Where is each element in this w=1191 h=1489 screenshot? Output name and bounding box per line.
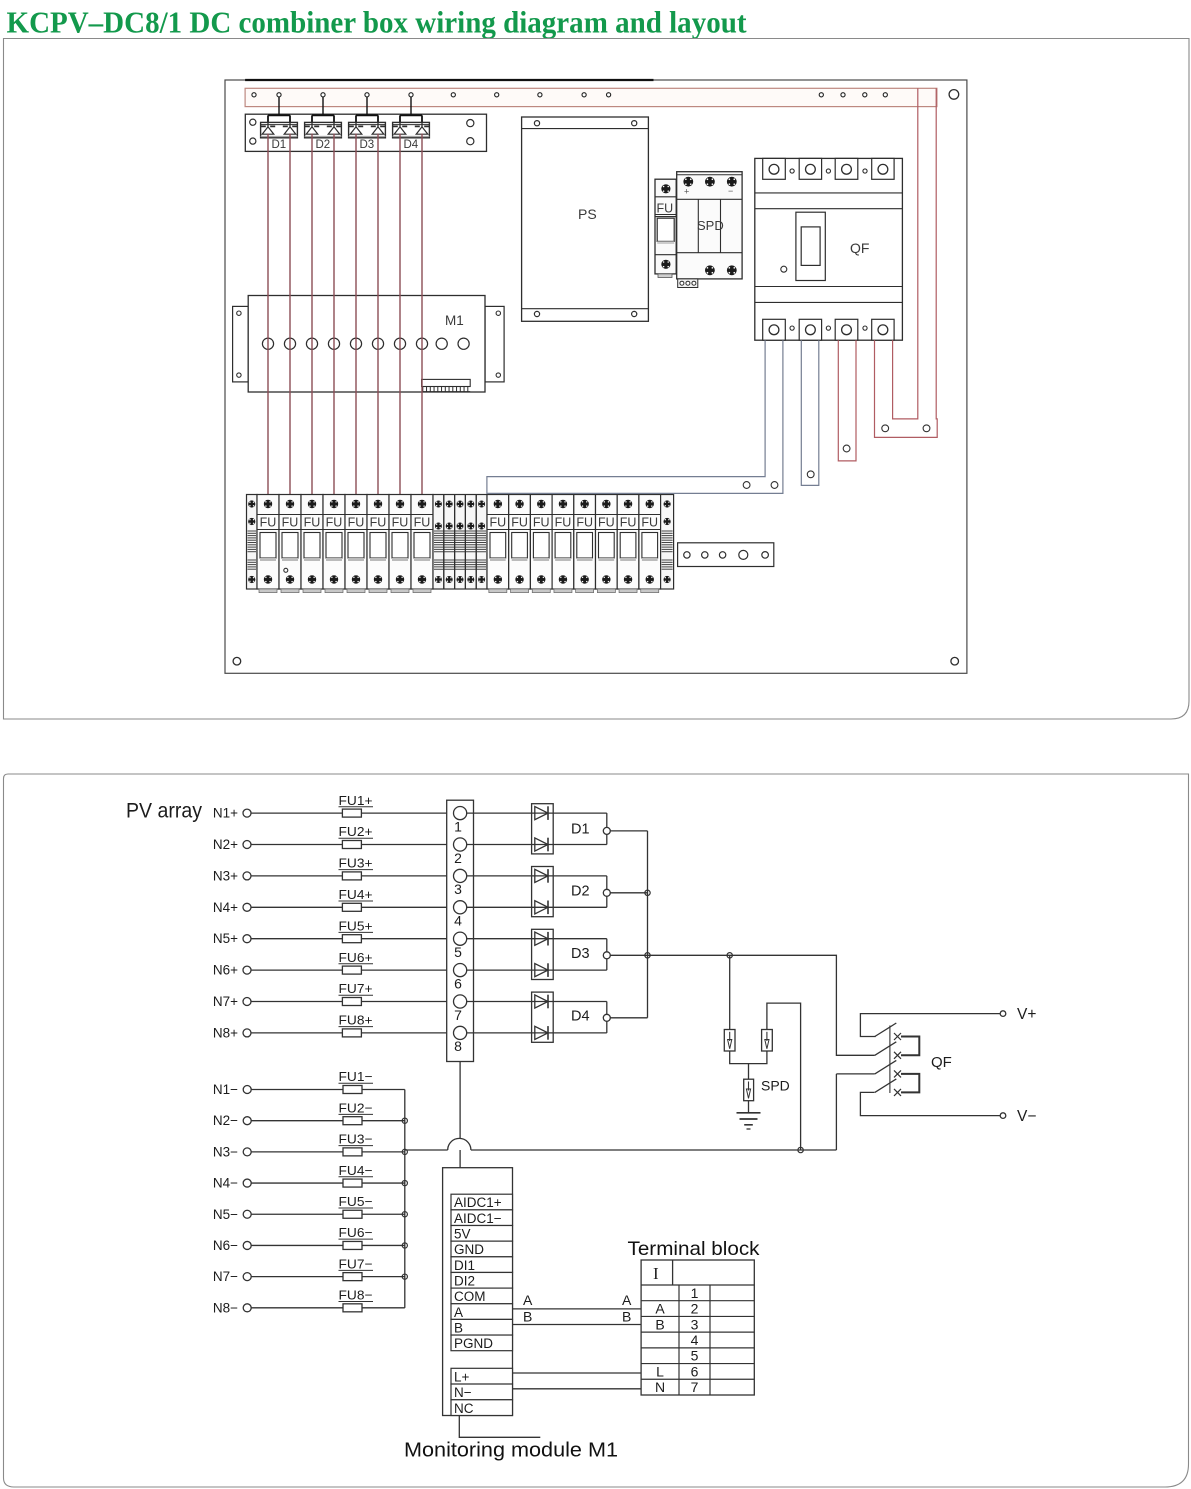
svg-text:V+: V+	[1017, 1006, 1036, 1023]
svg-text:B: B	[655, 1316, 664, 1332]
svg-text:−: −	[728, 186, 733, 196]
diode board holes	[250, 119, 474, 145]
svg-text:FU6+: FU6+	[339, 950, 373, 965]
svg-text:B: B	[454, 1320, 463, 1335]
svg-text:N8−: N8−	[213, 1300, 238, 1315]
fuse FU5-	[339, 1194, 374, 1218]
svg-text:FU5+: FU5+	[339, 918, 373, 933]
svg-text:N2+: N2+	[213, 837, 238, 852]
fuse FU8-	[339, 1288, 374, 1312]
fuse FU6-	[339, 1225, 374, 1249]
svg-text:Terminal block: Terminal block	[628, 1238, 760, 1260]
svg-text:N8+: N8+	[213, 1025, 238, 1040]
fuse FU3+	[339, 856, 374, 880]
svg-text:N4−: N4−	[213, 1176, 238, 1191]
svg-text:D4: D4	[404, 139, 419, 151]
svg-text:N5−: N5−	[213, 1207, 238, 1222]
blue stub QF terminal 2	[801, 340, 819, 485]
output V-	[1000, 1108, 1036, 1125]
svg-text:3: 3	[691, 1316, 699, 1332]
svg-text:FU: FU	[511, 516, 528, 530]
circuit breaker QF (schematic)	[860, 1014, 1000, 1116]
svg-text:6: 6	[454, 975, 462, 991]
svg-text:N1+: N1+	[213, 806, 238, 821]
diode pair D3	[532, 929, 648, 979]
svg-text:AIDC1−: AIDC1−	[454, 1211, 502, 1226]
fuse FU4+	[339, 887, 374, 911]
svg-text:7: 7	[454, 1007, 462, 1023]
wire L+	[513, 1372, 642, 1374]
svg-text:PV array: PV array	[126, 799, 202, 823]
N- bus junctions	[402, 1118, 407, 1279]
surge protector SPD	[677, 172, 742, 288]
svg-text:FU1+: FU1+	[339, 793, 373, 808]
svg-text:FU: FU	[576, 516, 593, 530]
svg-text:2: 2	[691, 1301, 699, 1317]
svg-text:FU: FU	[555, 516, 572, 530]
wire B	[513, 1309, 642, 1325]
input terminal N4-	[213, 1176, 405, 1191]
SPD arrester 2	[762, 1003, 801, 1150]
fuse FU3-	[339, 1132, 374, 1156]
svg-text:PS: PS	[578, 206, 597, 222]
svg-text:AIDC1+: AIDC1+	[454, 1195, 502, 1210]
middle terminal strips	[433, 495, 487, 590]
N- bus vertical	[404, 1090, 406, 1308]
ground symbol	[737, 1101, 761, 1129]
svg-text:6: 6	[691, 1363, 699, 1379]
svg-text:5V: 5V	[454, 1227, 471, 1242]
input terminal N8+	[213, 1025, 454, 1040]
svg-text:FU: FU	[260, 516, 277, 530]
svg-text:D1: D1	[571, 822, 590, 838]
svg-text:N6−: N6−	[213, 1238, 238, 1253]
svg-text:FU: FU	[490, 516, 507, 530]
svg-text:A: A	[523, 1292, 533, 1308]
svg-text:5: 5	[691, 1348, 699, 1364]
enclosure corner holes	[949, 90, 959, 100]
svg-text:FU2−: FU2−	[339, 1100, 373, 1115]
diode pair D4	[532, 992, 648, 1042]
svg-text:N4+: N4+	[213, 900, 238, 915]
SPD arrester 1	[724, 955, 735, 1051]
svg-text:1: 1	[691, 1285, 699, 1301]
input terminal N1-	[213, 1082, 405, 1097]
fuse holder FU (PV+ string 7)	[389, 495, 411, 593]
input terminal N3+	[213, 868, 454, 883]
PV+ terminal strip	[447, 800, 474, 1061]
fuse holder FU (PV+ string 3)	[301, 495, 323, 593]
fuse holder FU (PV- string 8)	[639, 495, 661, 593]
input terminal N1+	[213, 806, 454, 821]
fuse FU4-	[339, 1163, 374, 1187]
label Monitoring module M1	[404, 1416, 618, 1462]
svg-text:DI1: DI1	[454, 1258, 475, 1273]
output V+	[1000, 1006, 1036, 1023]
diode module D2 (layout)	[305, 93, 342, 151]
input terminal N4+	[213, 900, 454, 915]
DC+ bus bar (top)	[245, 88, 937, 106]
svg-text:Monitoring module M1: Monitoring module M1	[404, 1440, 618, 1462]
input terminal N5-	[213, 1207, 405, 1222]
fuse holder FU (PV+ string 2)	[279, 495, 301, 593]
svg-text:SPD: SPD	[761, 1078, 790, 1094]
svg-text:B: B	[622, 1309, 631, 1325]
red bus QF terminal 4 to DC+ bar	[875, 88, 938, 437]
svg-text:FU8+: FU8+	[339, 1013, 373, 1028]
fuse holder FU (PV- string 3)	[530, 495, 552, 593]
control fuse FU	[655, 179, 676, 277]
fuse FU8+	[339, 1013, 374, 1037]
svg-text:FU: FU	[657, 202, 674, 216]
fuse holder FU (PV+ string 6)	[367, 495, 389, 593]
small pilot hole on fuse 2	[284, 568, 288, 572]
input terminal N2-	[213, 1113, 405, 1128]
svg-text:COM: COM	[454, 1289, 486, 1304]
fuse holder FU (PV+ string 5)	[345, 495, 367, 593]
svg-text:FU: FU	[326, 516, 343, 530]
N- line to QF pole 2	[405, 1074, 875, 1153]
svg-text:FU: FU	[414, 516, 431, 530]
svg-text:A: A	[454, 1305, 463, 1320]
svg-text:PGND: PGND	[454, 1336, 493, 1351]
svg-text:FU1−: FU1−	[339, 1069, 373, 1084]
svg-text:FU8−: FU8−	[339, 1288, 373, 1303]
diode module D4 (layout)	[393, 93, 430, 151]
fuse FU6+	[339, 950, 374, 974]
svg-text:5: 5	[454, 944, 462, 960]
svg-text:FU: FU	[282, 516, 299, 530]
DC+ line to QF	[648, 953, 875, 1056]
fuse holder FU (PV- string 7)	[617, 495, 639, 593]
input terminal N3-	[213, 1144, 405, 1159]
diode pair D2	[532, 867, 648, 917]
svg-text:I: I	[653, 1264, 659, 1283]
svg-text:FU7+: FU7+	[339, 981, 373, 996]
svg-text:3: 3	[454, 881, 462, 897]
svg-text:N7−: N7−	[213, 1269, 238, 1284]
svg-text:D3: D3	[571, 946, 590, 962]
svg-text:QF: QF	[850, 240, 869, 256]
svg-text:A: A	[655, 1301, 665, 1317]
svg-text:FU: FU	[392, 516, 409, 530]
input terminal N7+	[213, 994, 454, 1009]
svg-text:8: 8	[454, 1038, 462, 1054]
svg-text:FU: FU	[641, 516, 658, 530]
fuse FU7+	[339, 981, 374, 1005]
fuse holder FU (PV- string 1)	[487, 495, 509, 593]
fuse holder FU (PV- string 4)	[552, 495, 574, 593]
wires strip to diode D2	[467, 876, 532, 907]
crossover hop	[448, 1138, 471, 1150]
input terminal N5+	[213, 931, 454, 946]
blue bus QF terminal 1 to fuse group 2	[487, 340, 783, 493]
svg-text:4: 4	[691, 1332, 699, 1348]
svg-text:FU3+: FU3+	[339, 856, 373, 871]
svg-text:QF: QF	[931, 1054, 952, 1071]
diode pair D1	[532, 804, 648, 854]
circuit breaker QF (layout)	[755, 158, 903, 340]
fuse holder FU (PV+ string 1)	[257, 495, 279, 593]
fuse FU1-	[339, 1069, 374, 1093]
bus bar holes	[252, 93, 888, 97]
fuse FU7-	[339, 1256, 374, 1280]
svg-text:D1: D1	[272, 139, 287, 151]
svg-text:N−: N−	[454, 1385, 472, 1400]
enclosure back plate	[225, 80, 967, 673]
monitoring module M1 (schematic)	[443, 1168, 513, 1416]
red wires diodes to fuses	[268, 134, 422, 505]
fuse holder FU (PV+ string 4)	[323, 495, 345, 593]
svg-text:2: 2	[454, 850, 462, 866]
svg-text:M1: M1	[445, 313, 464, 328]
input terminal N7-	[213, 1269, 405, 1284]
svg-text:FU: FU	[620, 516, 637, 530]
svg-text:D4: D4	[571, 1009, 590, 1025]
fuse holder FU (PV+ string 8)	[411, 495, 433, 593]
svg-text:B: B	[523, 1309, 532, 1325]
svg-text:SPD: SPD	[697, 218, 724, 233]
svg-text:N6+: N6+	[213, 963, 238, 978]
wires strip to diode D3	[467, 939, 532, 970]
svg-text:FU3−: FU3−	[339, 1132, 373, 1147]
svg-text:FU2+: FU2+	[339, 824, 373, 839]
svg-text:FU: FU	[598, 516, 615, 530]
monitoring module M1 (layout)	[233, 296, 505, 393]
svg-text:L+: L+	[454, 1369, 470, 1384]
svg-text:N: N	[655, 1379, 665, 1395]
wire N-	[513, 1388, 642, 1390]
bus bar mounting plate edge	[245, 79, 653, 81]
panel 2 frame	[4, 774, 1189, 1487]
svg-text:FU5−: FU5−	[339, 1194, 373, 1209]
svg-text:FU: FU	[304, 516, 321, 530]
DC+ collector bus	[645, 831, 650, 1018]
fuse FU1+	[339, 793, 374, 817]
svg-text:D2: D2	[571, 884, 590, 900]
svg-text:1: 1	[454, 818, 462, 834]
wires strip to diode D4	[467, 1002, 532, 1033]
svg-text:FU6−: FU6−	[339, 1225, 373, 1240]
svg-text:+: +	[684, 187, 689, 197]
svg-text:N1−: N1−	[213, 1082, 238, 1097]
panel 1 frame	[4, 39, 1190, 720]
svg-text:FU: FU	[348, 516, 365, 530]
input terminal N8-	[213, 1300, 405, 1315]
power supply PS	[522, 117, 649, 321]
svg-text:A: A	[622, 1292, 632, 1308]
svg-text:V−: V−	[1017, 1108, 1036, 1125]
svg-text:D2: D2	[316, 139, 331, 151]
svg-text:7: 7	[691, 1379, 699, 1395]
wire A	[513, 1292, 642, 1309]
diode module D1 (layout)	[261, 93, 298, 151]
terminal block table	[641, 1260, 754, 1395]
SPD arrester 3 to ground	[730, 1051, 790, 1101]
wire strip to module	[459, 1062, 461, 1168]
svg-text:N5+: N5+	[213, 931, 238, 946]
wires strip to diode D1	[467, 813, 532, 844]
svg-text:FU7−: FU7−	[339, 1256, 373, 1271]
svg-text:4: 4	[454, 913, 462, 929]
diode module D3 (layout)	[349, 93, 386, 151]
svg-text:N2−: N2−	[213, 1113, 238, 1128]
svg-text:KCPV–DC8/1 DC combiner box wir: KCPV–DC8/1 DC combiner box wiring diagra…	[7, 5, 748, 40]
input terminal N6-	[213, 1238, 405, 1253]
svg-text:FU: FU	[370, 516, 387, 530]
fuse holder FU (PV- string 6)	[596, 495, 618, 593]
svg-text:NC: NC	[454, 1401, 474, 1416]
input terminal N2+	[213, 837, 454, 852]
grounding terminal plate	[678, 543, 774, 567]
diode board plate	[245, 114, 486, 151]
fuse holder FU (PV- string 2)	[509, 495, 531, 593]
fuse FU2-	[339, 1100, 374, 1124]
fuse row right end clamp	[661, 495, 674, 590]
fuse row left end clamp	[247, 495, 258, 590]
svg-text:FU: FU	[533, 516, 550, 530]
fuse holder FU (PV- string 5)	[574, 495, 596, 593]
svg-text:N3+: N3+	[213, 868, 238, 883]
svg-text:N3−: N3−	[213, 1144, 238, 1159]
svg-text:FU4−: FU4−	[339, 1163, 373, 1178]
svg-text:DI2: DI2	[454, 1273, 475, 1288]
fuse FU5+	[339, 918, 374, 942]
svg-text:D3: D3	[360, 139, 375, 151]
svg-text:GND: GND	[454, 1242, 484, 1257]
input terminal N6+	[213, 963, 454, 978]
svg-text:N7+: N7+	[213, 994, 238, 1009]
fuse FU2+	[339, 824, 374, 848]
svg-text:FU4+: FU4+	[339, 887, 373, 902]
red stub QF terminal 3	[838, 340, 856, 461]
svg-text:L: L	[656, 1363, 664, 1379]
